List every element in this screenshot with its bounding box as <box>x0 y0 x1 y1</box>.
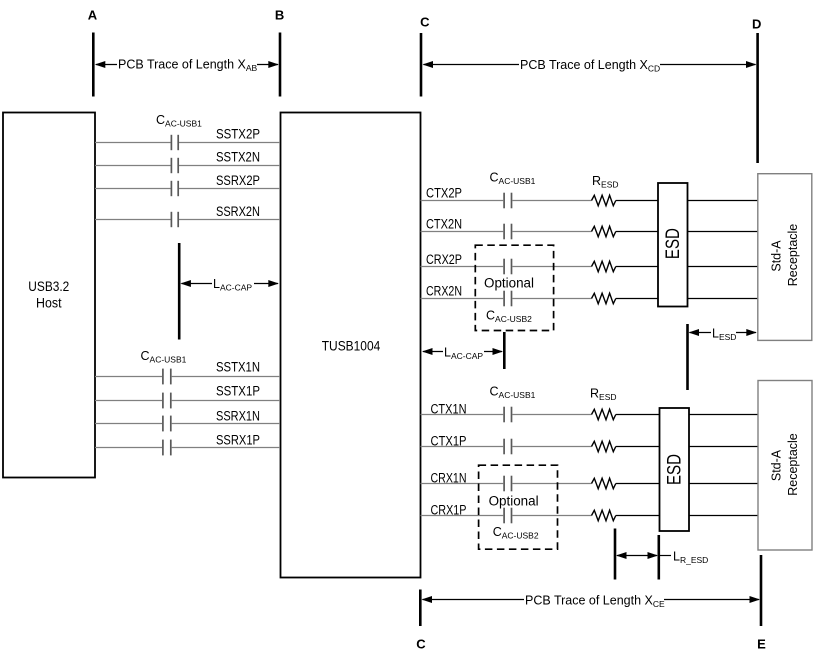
dimension arrow LESD <box>689 325 757 343</box>
svg-text:E: E <box>757 637 766 652</box>
wire CRX2P segments <box>421 266 758 268</box>
USB3.2 Host block <box>3 113 95 478</box>
resistor RESD lane CRX1N <box>592 478 616 488</box>
Std-A Receptacle block (top) <box>758 174 812 341</box>
svg-text:PCB Trace of Length XCD: PCB Trace of Length XCD <box>520 58 660 74</box>
Std-A Receptacle block (bottom) <box>758 381 812 551</box>
svg-text:CTX2N: CTX2N <box>426 217 462 232</box>
svg-text:Std-A: Std-A <box>770 449 784 481</box>
capacitor CAC-USB1/CAC-USB2 bars (lanes 1) <box>504 407 511 524</box>
svg-text:SSTX1N: SSTX1N <box>216 360 260 375</box>
svg-text:SSRX2P: SSRX2P <box>216 173 260 188</box>
svg-text:CRX1N: CRX1N <box>431 471 467 486</box>
wire SSRX2P segments <box>95 188 280 190</box>
wire SSTX2P segments <box>95 142 280 144</box>
svg-text:Optional: Optional <box>484 276 534 291</box>
dimension arrow C-D: PCB Trace of Length XCD <box>423 56 757 74</box>
svg-text:CRX2N: CRX2N <box>426 284 462 299</box>
wire SSTX1N segments <box>95 376 280 378</box>
optional cap dashed box (top) <box>475 245 553 330</box>
svg-text:CTX1P: CTX1P <box>431 434 467 449</box>
node B tick <box>279 33 282 97</box>
svg-text:Receptacle: Receptacle <box>786 224 800 287</box>
svg-text:CRX1P: CRX1P <box>431 503 467 518</box>
node C tick (top) <box>420 33 423 97</box>
svg-text:SSRX1P: SSRX1P <box>216 433 260 448</box>
tick for LESD <box>686 324 689 390</box>
svg-text:PCB Trace of Length XCE: PCB Trace of Length XCE <box>525 594 665 610</box>
optional cap dashed box (bottom) <box>479 465 558 549</box>
dimension arrow C-E: PCB Trace of Length XCE <box>422 591 761 609</box>
svg-text:C: C <box>416 637 426 652</box>
svg-text:ESD: ESD <box>663 228 684 259</box>
node A tick <box>92 33 95 97</box>
svg-text:CRX2P: CRX2P <box>426 252 462 267</box>
svg-text:SSTX2P: SSTX2P <box>216 127 260 142</box>
tick for LAC-CAP (left) <box>178 243 181 340</box>
wire SSTX1P segments <box>95 400 280 402</box>
svg-text:CTX2P: CTX2P <box>426 185 462 200</box>
wire CTX1N segments <box>421 414 759 416</box>
svg-text:ESD: ESD <box>665 454 686 485</box>
capacitor CAC-USB1/CAC-USB2 bars (lanes 2) <box>504 193 511 307</box>
wire CTX2N segments <box>421 231 758 233</box>
resistor RESD lane CRX2P <box>592 261 616 271</box>
svg-text:SSTX1P: SSTX1P <box>216 384 260 399</box>
capacitor CAC-USB1 group (host side, lanes 1) <box>163 369 171 456</box>
svg-text:C: C <box>420 15 430 30</box>
svg-text:B: B <box>275 8 284 23</box>
dimension arrow A-B: PCB Trace of Length XAB <box>95 55 279 73</box>
wire CTX2P segments <box>421 200 758 202</box>
node C tick (bottom) <box>419 590 422 627</box>
wire SSRX2N segments <box>95 219 280 221</box>
tick for LR_ESD (right) <box>657 535 660 580</box>
svg-text:Std-A: Std-A <box>770 240 784 272</box>
svg-text:SSRX1N: SSRX1N <box>216 409 260 424</box>
capacitor CAC-USB1 group (host side, lanes 2) <box>171 135 178 227</box>
svg-text:SSTX2N: SSTX2N <box>216 150 260 165</box>
svg-text:A: A <box>88 8 98 23</box>
dimension arrow LAC-CAP (right) <box>422 344 503 362</box>
wire SSRX1N segments <box>95 423 280 425</box>
ESD block (top) <box>658 183 688 307</box>
wire CRX2N segments <box>421 298 758 300</box>
resistor RESD lane CTX2N <box>592 226 616 236</box>
svg-text:USB3.2: USB3.2 <box>28 279 69 294</box>
svg-text:TUSB1004: TUSB1004 <box>322 339 381 354</box>
resistor RESD lane CTX2P <box>592 195 616 205</box>
tick for LR_ESD (left) <box>614 529 617 580</box>
node E tick <box>760 555 763 626</box>
resistor RESD lane CRX2N <box>592 293 616 303</box>
wire SSRX1P segments <box>95 447 280 449</box>
TUSB1004 block U1 <box>281 113 421 578</box>
wire CRX1P segments <box>421 515 759 517</box>
wire CRX1N segments <box>421 483 759 485</box>
node D tick <box>756 33 759 163</box>
ESD block (bottom) <box>660 408 690 531</box>
tick for LAC-CAP (right) <box>503 332 506 369</box>
resistor RESD lane CTX1N <box>592 409 616 419</box>
svg-text:Optional: Optional <box>489 494 539 509</box>
dimension arrow LAC-CAP (left) <box>180 275 278 293</box>
svg-text:Receptacle: Receptacle <box>786 433 800 496</box>
svg-text:PCB Trace of Length XAB: PCB Trace of Length XAB <box>118 58 258 74</box>
resistor RESD lane CRX1P <box>592 510 616 520</box>
svg-text:CTX1N: CTX1N <box>431 402 467 417</box>
wire CTX1P segments <box>421 446 759 448</box>
dimension arrow LR_ESD <box>616 550 708 566</box>
resistor RESD lane CTX1P <box>592 441 616 451</box>
svg-text:D: D <box>752 17 761 32</box>
wire SSTX2N segments <box>95 165 280 167</box>
svg-text:Host: Host <box>36 296 62 311</box>
svg-text:SSRX2N: SSRX2N <box>216 204 260 219</box>
